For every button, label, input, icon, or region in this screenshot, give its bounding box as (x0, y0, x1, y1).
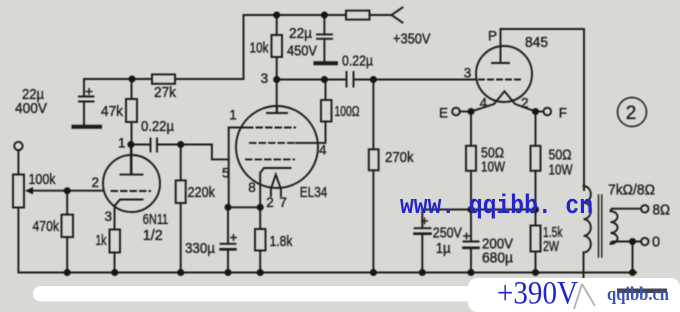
svg-text:2W: 2W (543, 239, 559, 255)
svg-text:2: 2 (626, 103, 637, 124)
svg-text:6N11: 6N11 (143, 212, 169, 228)
svg-text:1.8k: 1.8k (270, 234, 294, 250)
svg-text:4: 4 (319, 143, 327, 158)
svg-text:50Ω: 50Ω (549, 148, 572, 164)
svg-text:www. qqibb. cn: www. qqibb. cn (400, 192, 593, 222)
svg-text:+350V: +350V (393, 32, 431, 48)
svg-text:22µ: 22µ (289, 26, 313, 42)
svg-text:1k: 1k (96, 233, 108, 249)
svg-text:3: 3 (261, 71, 269, 86)
svg-text:0.22µ: 0.22µ (342, 54, 374, 70)
svg-text:3: 3 (105, 209, 113, 224)
svg-text:10k: 10k (250, 41, 270, 57)
svg-text:qqibb.cn: qqibb.cn (607, 284, 669, 305)
svg-text:680µ: 680µ (482, 251, 514, 267)
svg-text:3: 3 (464, 66, 472, 81)
svg-text:47k: 47k (101, 104, 124, 120)
svg-text:10W: 10W (481, 160, 505, 176)
svg-text:8: 8 (248, 180, 256, 195)
svg-text:1µ: 1µ (436, 241, 452, 257)
svg-text:330µ: 330µ (185, 241, 216, 257)
svg-text:250V: 250V (433, 226, 462, 242)
svg-text:EL34: EL34 (300, 185, 328, 201)
svg-text:1: 1 (229, 108, 237, 123)
svg-text:5: 5 (222, 166, 230, 181)
svg-text:27k: 27k (154, 85, 177, 101)
svg-text:1: 1 (118, 136, 126, 151)
svg-text:7kΩ/8Ω: 7kΩ/8Ω (608, 183, 655, 199)
svg-text:8Ω: 8Ω (653, 203, 671, 219)
svg-text:470k: 470k (33, 219, 60, 235)
svg-text:+390V: +390V (497, 276, 578, 312)
svg-text:100Ω: 100Ω (335, 104, 360, 120)
svg-text:270k: 270k (385, 150, 414, 166)
svg-text:450V: 450V (287, 44, 317, 60)
svg-text:220k: 220k (188, 185, 216, 201)
svg-text:F: F (559, 106, 567, 121)
svg-text:400V: 400V (15, 101, 47, 117)
svg-text:1/2: 1/2 (143, 228, 163, 244)
svg-text:0.22µ: 0.22µ (141, 119, 175, 135)
svg-text:E: E (439, 106, 448, 121)
svg-text:P: P (488, 29, 497, 44)
svg-text:4: 4 (480, 96, 488, 111)
svg-text:100k: 100k (29, 172, 57, 188)
svg-text:2: 2 (521, 96, 529, 111)
svg-text:7: 7 (279, 195, 287, 210)
svg-text:845: 845 (525, 35, 548, 51)
svg-text:0: 0 (652, 235, 660, 251)
svg-text:10W: 10W (549, 163, 573, 179)
svg-text:2: 2 (266, 195, 274, 210)
svg-text:2: 2 (92, 175, 100, 190)
